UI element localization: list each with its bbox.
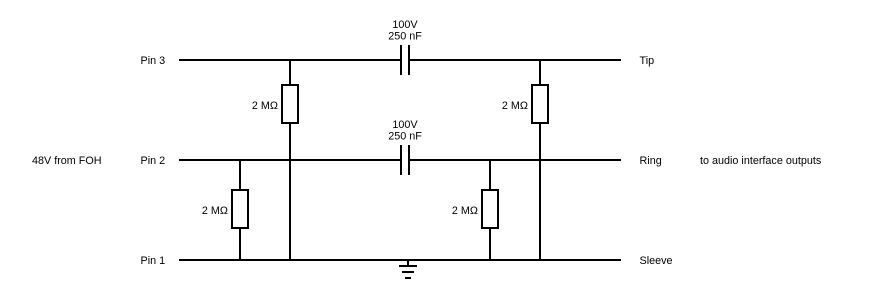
svg-text:100V: 100V <box>392 119 418 131</box>
wire R4 top lead <box>489 160 491 190</box>
svg-text:to audio interface outputs: to audio interface outputs <box>700 155 822 167</box>
wire R4 bottom lead <box>489 228 491 260</box>
svg-text:48V from FOH: 48V from FOH <box>32 155 102 167</box>
svg-text:Sleeve: Sleeve <box>640 255 673 267</box>
resistor R3 body <box>232 190 248 228</box>
svg-text:250 nF: 250 nF <box>388 31 422 43</box>
svg-text:2 MΩ: 2 MΩ <box>202 205 228 217</box>
svg-text:100V: 100V <box>392 19 418 31</box>
svg-text:Pin 2: Pin 2 <box>141 155 166 167</box>
svg-text:2 MΩ: 2 MΩ <box>452 205 478 217</box>
svg-text:Pin 3: Pin 3 <box>141 55 166 67</box>
svg-text:2 MΩ: 2 MΩ <box>502 100 528 112</box>
resistor R4 body <box>482 190 498 228</box>
svg-text:Ring: Ring <box>640 155 662 167</box>
wire Pin1 to Sleeve <box>179 259 621 261</box>
wire Pin3 to Tip (right of C1) <box>410 59 621 61</box>
resistor R2 body <box>532 85 548 123</box>
ground <box>399 260 417 278</box>
svg-text:250 nF: 250 nF <box>388 131 422 143</box>
wire R2 bottom lead down to Sleeve line <box>539 123 541 260</box>
wire Pin2 to Ring (right of C2) <box>410 159 621 161</box>
wire R3 bottom lead <box>239 228 241 260</box>
svg-text:2 MΩ: 2 MΩ <box>252 100 278 112</box>
wire Pin3 to Tip (left of C1) <box>179 59 400 61</box>
capacitor C2 plates <box>401 145 409 175</box>
svg-text:Pin 1: Pin 1 <box>141 255 166 267</box>
capacitor C1 plates <box>401 45 409 75</box>
wire R2 top lead <box>539 60 541 85</box>
wire R3 top lead <box>239 160 241 190</box>
resistor R1 body <box>282 85 298 123</box>
wire R1 top lead <box>289 60 291 85</box>
wire R1 bottom lead down to Pin1 line <box>289 123 291 260</box>
svg-text:Tip: Tip <box>640 55 655 67</box>
wire Pin2 to Ring (left of C2) <box>179 159 400 161</box>
